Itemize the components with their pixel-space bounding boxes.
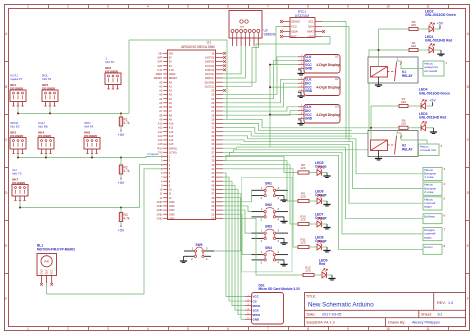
svg-text:RESET: RESET	[154, 76, 163, 80]
svg-text:+5V: +5V	[118, 181, 125, 185]
svg-text:GNL-5013GD-Green: GNL-5013GD-Green	[419, 91, 450, 95]
svg-text:8: 8	[307, 5, 309, 9]
svg-text:GND: GND	[157, 200, 163, 204]
svg-text:11: 11	[426, 327, 430, 331]
power flag +5V under R3	[118, 226, 125, 233]
svg-text:220: 220	[300, 241, 305, 245]
svg-text:VCC: VCC	[51, 269, 54, 274]
wire RTC SCL riser	[322, 22, 346, 139]
svg-text:SQW: SQW	[291, 30, 298, 34]
svg-text:ARDUINO MEGA 2560: ARDUINO MEGA 2560	[181, 45, 215, 49]
svg-text:10: 10	[386, 5, 390, 9]
wire bus trunk vertical	[128, 40, 130, 113]
wire display U1 CLK	[223, 57, 298, 95]
svg-text:№2 8B: №2 8B	[38, 124, 47, 128]
svg-text:VCC: VCC	[253, 295, 260, 299]
svg-text:GND: GND	[169, 216, 175, 220]
svg-text:котловой: котловой	[424, 69, 437, 73]
wire 1-wire bus row1	[18, 106, 121, 113]
svg-text:3: 3	[107, 327, 109, 331]
svg-text:5V: 5V	[169, 56, 172, 60]
node output flag 8	[423, 244, 446, 254]
svg-text:№1 87: №1 87	[105, 60, 114, 64]
wire PIR OUT to MCU pin	[47, 169, 164, 294]
LED LED6 Orange with resistor R9	[296, 189, 331, 206]
svg-text:RELAY: RELAY	[402, 74, 413, 78]
svg-text:3: 3	[107, 5, 109, 9]
op-amp U1 : microcontroller ARDUINO MEGA 2560	[154, 41, 226, 221]
LED LED1 with resistor R4	[409, 35, 452, 56]
svg-text:A3: A3	[159, 93, 163, 97]
svg-text:17(RX2): 17(RX2)	[205, 68, 215, 72]
wire SIM800L RX TX to MCU	[223, 46, 241, 74]
svg-text:SW1: SW1	[265, 182, 272, 186]
svg-text:DS18B20: DS18B20	[38, 134, 51, 138]
svg-text:A12: A12	[158, 130, 163, 134]
temperature sensor BK7 DS18B20	[12, 168, 28, 201]
svg-text:SIM800L: SIM800L	[264, 32, 277, 36]
svg-text:+5V: +5V	[118, 133, 125, 137]
svg-text:Date:: Date:	[307, 313, 316, 317]
svg-text:220: 220	[300, 166, 305, 170]
power flag +5V under R2	[118, 178, 125, 185]
wire to SW3	[223, 210, 252, 233]
svg-text:GND: GND	[169, 204, 175, 208]
svg-text:A15: A15	[169, 142, 174, 146]
svg-text:1/1: 1/1	[437, 313, 442, 317]
wire display U2 CLK	[223, 79, 298, 103]
svg-text:220: 220	[411, 44, 416, 48]
svg-text:A9: A9	[159, 117, 163, 121]
svg-text:U3: U3	[335, 104, 339, 108]
svg-text:A9: A9	[169, 117, 173, 121]
temperature sensor BK3 DS18B20	[10, 121, 26, 154]
svg-text:MISO: MISO	[253, 313, 261, 317]
svg-text:5VP: 5VP	[157, 60, 162, 64]
switch SW5 push button	[184, 243, 214, 261]
svg-text:220: 220	[401, 122, 406, 126]
svg-text:SDA: SDA	[308, 25, 314, 29]
svg-text:A10: A10	[169, 122, 174, 126]
memory module DS1 Micro SD Card Module 3.3V	[245, 283, 301, 324]
wire bus top run to MCU	[129, 40, 227, 119]
svg-text:U2: U2	[335, 77, 339, 81]
svg-text:Red: Red	[319, 262, 325, 266]
svg-text:32KHZ: 32KHZ	[291, 20, 300, 24]
svg-text:Бойлер: Бойлер	[424, 214, 435, 218]
svg-text:220: 220	[411, 23, 416, 27]
svg-text:8: 8	[307, 327, 309, 331]
svg-text:2: 2	[67, 327, 69, 331]
svg-text:GND: GND	[169, 212, 175, 216]
svg-text:5VP: 5VP	[157, 64, 162, 68]
temperature sensor BK5 DS18B20	[42, 73, 58, 106]
LED LED3 with resistor R6	[399, 112, 446, 134]
svg-text:DS18B20: DS18B20	[84, 134, 97, 138]
wire display U3 CLK	[223, 107, 298, 111]
svg-text:GND: GND	[157, 212, 163, 216]
node output flag 7	[423, 227, 446, 240]
node output flag 4	[423, 182, 446, 195]
svg-text:SCK: SCK	[253, 308, 260, 312]
svg-text:A1: A1	[169, 84, 173, 88]
svg-text:A11: A11	[169, 126, 174, 130]
wire SW5 to MCU	[214, 198, 241, 251]
temperature sensor BK8 DS18B20	[84, 121, 100, 154]
svg-text:гараж FT: гараж FT	[10, 77, 23, 81]
svg-text:GND: GND	[169, 208, 175, 212]
svg-text:A5: A5	[169, 101, 173, 105]
svg-text:MOTION-PIR-DYP-ME003: MOTION-PIR-DYP-ME003	[37, 247, 75, 251]
svg-text:DS18B20: DS18B20	[10, 134, 23, 138]
svg-text:4.7k: 4.7k	[124, 169, 130, 173]
svg-text:A0: A0	[169, 80, 173, 84]
svg-text:220: 220	[401, 100, 406, 104]
ground under display U1	[298, 70, 301, 74]
svg-text:VIN: VIN	[158, 51, 162, 55]
svg-text:4-Digit Display: 4-Digit Display	[316, 63, 340, 67]
svg-text:A6: A6	[159, 105, 163, 109]
svg-text:GNL-5013HD Red: GNL-5013HD Red	[419, 116, 446, 120]
svg-text:4: 4	[147, 327, 149, 331]
switch SW4 push button	[252, 246, 289, 266]
svg-text:2: 2	[67, 5, 69, 9]
svg-text:TITLE:: TITLE:	[306, 295, 316, 299]
svg-text:15(RX3): 15(RX3)	[205, 60, 215, 64]
svg-text:A13: A13	[169, 134, 174, 138]
svg-text:5: 5	[187, 327, 189, 331]
svg-text:SW3: SW3	[265, 224, 272, 228]
LED LED2 with resistor R5	[409, 9, 456, 32]
svg-text:1(TX0): 1(TX0)	[169, 150, 177, 154]
svg-text:GND: GND	[308, 35, 314, 39]
svg-text:DS18B20: DS18B20	[12, 181, 25, 185]
svg-text:New Schematic Arduino: New Schematic Arduino	[308, 301, 374, 308]
wire to SW1	[223, 190, 252, 202]
resistor R3 4.7k pullup	[119, 208, 130, 226]
svg-text:SCL: SCL	[308, 20, 314, 24]
svg-text:GND: GND	[41, 269, 44, 275]
svg-text:GND: GND	[305, 89, 313, 93]
svg-text:F: F	[467, 297, 469, 301]
node output flag 6	[423, 214, 446, 224]
svg-text:GND: GND	[305, 67, 313, 71]
wire RTC VCC to 5V net	[270, 27, 283, 65]
svg-text:VIN: VIN	[169, 51, 173, 55]
svg-text:14(TX3): 14(TX3)	[205, 56, 215, 60]
svg-text:2 этаж: 2 этаж	[424, 190, 434, 194]
svg-text:Сторож: Сторож	[148, 152, 159, 156]
svg-text:A14: A14	[158, 138, 163, 142]
svg-text:№4 64: №4 64	[84, 124, 93, 128]
group rectangle switches area	[242, 178, 292, 272]
LED LED5 Orange with resistor R8	[296, 161, 331, 178]
wire to LED8	[223, 169, 296, 247]
svg-text:RESET: RESET	[169, 76, 178, 80]
svg-text:9: 9	[347, 327, 349, 331]
svg-text:RELAY: RELAY	[402, 148, 413, 152]
svg-text:A7: A7	[169, 109, 173, 113]
temperature sensor BK1 DS18B20	[10, 73, 26, 106]
svg-text:DS18B20: DS18B20	[105, 69, 118, 73]
svg-text:Drawn By:: Drawn By:	[388, 321, 406, 325]
display module U1 4-Digit Display	[298, 54, 340, 73]
svg-text:3.3V: 3.3V	[157, 68, 163, 72]
svg-text:воды: воды	[424, 235, 432, 239]
svg-text:№1 E3: №1 E3	[10, 124, 20, 128]
switch SW3 push button	[252, 224, 289, 244]
temperature sensor BK6 DS18B20	[105, 56, 121, 89]
svg-text:U1: U1	[335, 54, 339, 58]
svg-text:4.7k: 4.7k	[124, 121, 130, 125]
node output flag 1	[423, 61, 448, 76]
relay K2	[368, 127, 418, 160]
svg-text:Alexey Philippov: Alexey Philippov	[412, 321, 440, 325]
wire to LED9	[223, 218, 301, 275]
svg-text:21(SCL): 21(SCL)	[205, 84, 215, 88]
wires SD card to MCU	[223, 173, 245, 319]
svg-text:18(TX1): 18(TX1)	[205, 72, 215, 76]
svg-text:A6: A6	[169, 105, 173, 109]
svg-text:REV:: REV:	[437, 301, 446, 305]
svg-text:GND: GND	[157, 208, 163, 212]
svg-text:2017-03-05: 2017-03-05	[322, 313, 341, 317]
LED LED7 Orange with resistor R10	[296, 212, 331, 229]
LED LED9 Red with resistor R12	[301, 259, 336, 280]
svg-text:Micro SD Card Module 3.3V: Micro SD Card Module 3.3V	[259, 287, 301, 291]
svg-text:GND: GND	[157, 204, 163, 208]
svg-text:19(RX1): 19(RX1)	[205, 76, 215, 80]
svg-text:PIR: PIR	[44, 260, 49, 264]
svg-text:GND: GND	[169, 200, 175, 204]
svg-text:A11: A11	[158, 126, 163, 130]
svg-text:9: 9	[347, 5, 349, 9]
svg-text:OUT: OUT	[46, 269, 49, 275]
svg-text:0(RX0): 0(RX0)	[169, 146, 177, 150]
wire display U2 DIO	[223, 83, 298, 107]
svg-text:A12: A12	[169, 130, 174, 134]
display module U2 4-Digit Display	[298, 77, 340, 96]
svg-text:1 этаж: 1 этаж	[424, 175, 434, 179]
wire RTC GND to MCU SDA row	[223, 37, 330, 83]
node output flag 5	[423, 197, 446, 210]
svg-text:7: 7	[267, 5, 269, 9]
ground under display U2	[298, 92, 301, 96]
svg-text:RST: RST	[291, 35, 297, 39]
svg-text:1: 1	[27, 5, 29, 9]
sensor BL1 MOTION-PIR-DYP-ME003	[37, 243, 75, 285]
svg-text:теплый пол: теплый пол	[420, 148, 437, 152]
switch SW2 push button	[252, 203, 289, 223]
svg-text:DS18B20: DS18B20	[10, 86, 23, 90]
svg-text:+5V: +5V	[118, 229, 125, 233]
wire to LED6	[223, 161, 296, 201]
svg-text:A2: A2	[159, 89, 163, 93]
wire to LED7	[223, 165, 296, 224]
svg-text:F: F	[5, 297, 7, 301]
svg-text:220: 220	[300, 195, 305, 199]
svg-text:A8: A8	[169, 113, 173, 117]
svg-text:AREF: AREF	[169, 72, 176, 76]
svg-text:воды: воды	[424, 205, 432, 209]
svg-text:1: 1	[27, 327, 29, 331]
svg-text:A4: A4	[169, 97, 173, 101]
svg-text:7: 7	[267, 327, 269, 331]
svg-text:VCC: VCC	[291, 25, 297, 29]
switch SW1 push button	[252, 182, 289, 202]
svg-text:220: 220	[305, 269, 310, 273]
wire main bundle from MCU to right side	[223, 29, 423, 249]
svg-text:4-Digit Display: 4-Digit Display	[316, 85, 340, 89]
wire 1-wire bus row3	[20, 165, 163, 208]
svg-text:Котел: Котел	[424, 245, 432, 249]
svg-text:4.7k: 4.7k	[124, 217, 130, 221]
svg-text:DS18B20: DS18B20	[42, 86, 55, 90]
svg-text:EasyEDA V4.1.3: EasyEDA V4.1.3	[307, 321, 335, 325]
svg-text:GND: GND	[253, 317, 261, 321]
svg-text:A4: A4	[159, 97, 163, 101]
svg-text:SW4: SW4	[265, 246, 272, 250]
svg-text:5V: 5V	[169, 64, 172, 68]
svg-text:GND: GND	[305, 117, 313, 121]
svg-text:MOSI: MOSI	[253, 304, 261, 308]
svg-text:A14: A14	[169, 138, 174, 142]
title block	[304, 293, 466, 327]
svg-text:SW2: SW2	[265, 203, 272, 207]
svg-text:5: 5	[187, 5, 189, 9]
wire RTC SDA riser	[322, 27, 349, 142]
wire SIM RST to MCU SCL row	[223, 46, 259, 86]
wire K1 to flag1	[397, 61, 424, 69]
display module U3 4-Digit Display	[298, 104, 340, 123]
svg-text:5V: 5V	[169, 60, 172, 64]
svg-text:GND: GND	[157, 216, 163, 220]
svg-text:+5V: +5V	[429, 98, 436, 102]
svg-text:10: 10	[386, 327, 390, 331]
wire bus row1 to trunk	[121, 112, 129, 114]
wire 5V rail to displays VCC	[270, 64, 298, 66]
svg-text:A13: A13	[158, 134, 163, 138]
resistor R1 4.7k pullup	[119, 113, 130, 130]
node output flag 2	[419, 144, 443, 156]
wire to SW4	[223, 214, 252, 254]
LED LED4 with resistor R7	[399, 88, 450, 110]
svg-text:GNL-5013HD Red: GNL-5013HD Red	[425, 39, 452, 43]
svg-text:AREF: AREF	[155, 72, 162, 76]
LED LED8 Orange with resistor R11	[296, 235, 331, 252]
svg-text:TX0: TX0	[158, 150, 163, 154]
svg-text:A1: A1	[159, 84, 163, 88]
svg-text:+5V: +5V	[437, 21, 444, 25]
wire display U3 DIO	[223, 111, 298, 115]
svg-text:A7: A7	[159, 109, 163, 113]
relay K1	[368, 49, 418, 87]
junction dots on buses	[17, 112, 122, 208]
svg-text:16(TX2): 16(TX2)	[205, 64, 215, 68]
svg-text:1.0: 1.0	[448, 301, 453, 305]
svg-text:№3 51: №3 51	[42, 77, 51, 81]
temperature sensor BK4 DS18B20	[38, 121, 54, 154]
svg-text:6: 6	[227, 5, 229, 9]
svg-text:A0: A0	[159, 80, 163, 84]
wire to LED5	[223, 156, 296, 172]
svg-text:6: 6	[227, 327, 229, 331]
power flag +5V under R1	[118, 130, 125, 137]
ground for SW5	[183, 255, 186, 257]
svg-text:A10: A10	[158, 122, 163, 126]
svg-text:№5 Y5: №5 Y5	[12, 171, 22, 175]
op-amp RTC1 : DS3231M real time clock	[280, 10, 325, 39]
wire 1-wire bus row2	[18, 154, 163, 158]
svg-text:A3: A3	[169, 93, 173, 97]
svg-text:GNL-5013GD Green: GNL-5013GD Green	[425, 13, 456, 17]
ground under display U3	[298, 120, 301, 124]
wire to SW2	[223, 206, 252, 212]
resistor R2 4.7k pullup	[119, 158, 130, 179]
wire display U1 DIO	[223, 61, 298, 99]
svg-text:A5: A5	[159, 101, 163, 105]
op-amp U3 : GSM module SIM800L	[229, 11, 276, 47]
svg-text:4: 4	[147, 5, 149, 9]
svg-text:Sheet:: Sheet:	[421, 313, 432, 317]
svg-text:VBAT: VBAT	[307, 30, 315, 34]
svg-text:220: 220	[300, 218, 305, 222]
wire K2 to flag2	[397, 133, 428, 150]
svg-text:11: 11	[426, 5, 430, 9]
svg-text:A2: A2	[169, 89, 173, 93]
svg-text:3.3V: 3.3V	[169, 68, 175, 72]
svg-text:NET: NET	[240, 27, 245, 29]
svg-text:SW5: SW5	[196, 243, 203, 247]
node output flag 3	[423, 167, 446, 180]
svg-text:4-Digit Display: 4-Digit Display	[316, 113, 340, 117]
svg-text:5VP: 5VP	[157, 56, 162, 60]
svg-text:CS: CS	[253, 299, 257, 303]
svg-text:A8: A8	[159, 113, 163, 117]
svg-text:RX0: RX0	[157, 146, 163, 150]
svg-text:A15: A15	[158, 142, 163, 146]
svg-text:20(SDA): 20(SDA)	[204, 80, 214, 84]
svg-text:U1: U1	[207, 41, 211, 45]
